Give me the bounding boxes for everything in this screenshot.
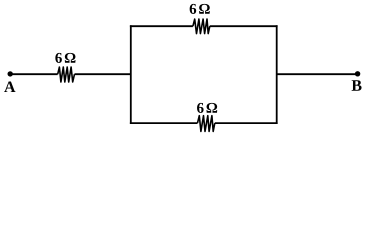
wire top branch right segment <box>210 25 278 27</box>
wire left junction riser <box>130 25 132 124</box>
resistor R2 value label 6 ohm <box>190 4 210 14</box>
wire bottom branch left segment <box>130 122 198 124</box>
resistor R2 <box>193 19 210 33</box>
wire right junction riser <box>276 25 278 124</box>
resistor R1 <box>58 67 75 82</box>
node A label <box>4 81 15 92</box>
resistor R3 value label 6 ohm <box>197 103 217 113</box>
resistor R1 value label 6 ohm <box>55 53 75 63</box>
node A <box>8 71 13 76</box>
wire right junction to B <box>277 73 358 75</box>
node B label <box>352 80 362 91</box>
node B <box>355 71 360 76</box>
wire bottom branch right segment <box>215 122 278 124</box>
wire top branch left segment <box>130 25 193 27</box>
wire A to R1 <box>10 73 58 75</box>
wire R1 to left junction <box>75 73 131 75</box>
resistor R3 <box>198 116 215 132</box>
